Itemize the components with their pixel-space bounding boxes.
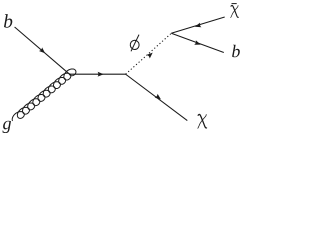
label chi-bar glyph — [231, 5, 239, 18]
phi mediator dotted line — [126, 33, 172, 74]
label b (incoming quark) — [4, 14, 12, 28]
label b (outgoing quark) — [232, 45, 240, 58]
internal quark propagator — [70, 73, 126, 75]
arrow on chi-bar line (toward vertex) — [194, 23, 201, 29]
arrow on outgoing b line — [194, 40, 201, 47]
gluon propagator g — [12, 69, 76, 121]
label chi glyph — [198, 114, 207, 128]
incoming b quark line — [15, 27, 70, 74]
outgoing chi line — [126, 74, 188, 120]
arrow on internal propagator — [98, 72, 104, 77]
label g (gluon) — [3, 121, 11, 133]
overline bar of chi-bar — [232, 3, 237, 4]
label phi (bowl) — [130, 40, 140, 50]
arrow on incoming b line — [39, 47, 47, 55]
arrow on chi line — [155, 94, 163, 102]
label phi (stem stroke) — [131, 35, 139, 52]
outgoing b quark line — [171, 33, 224, 52]
outgoing chi-bar line — [171, 17, 224, 33]
arrow on phi line — [147, 51, 155, 59]
